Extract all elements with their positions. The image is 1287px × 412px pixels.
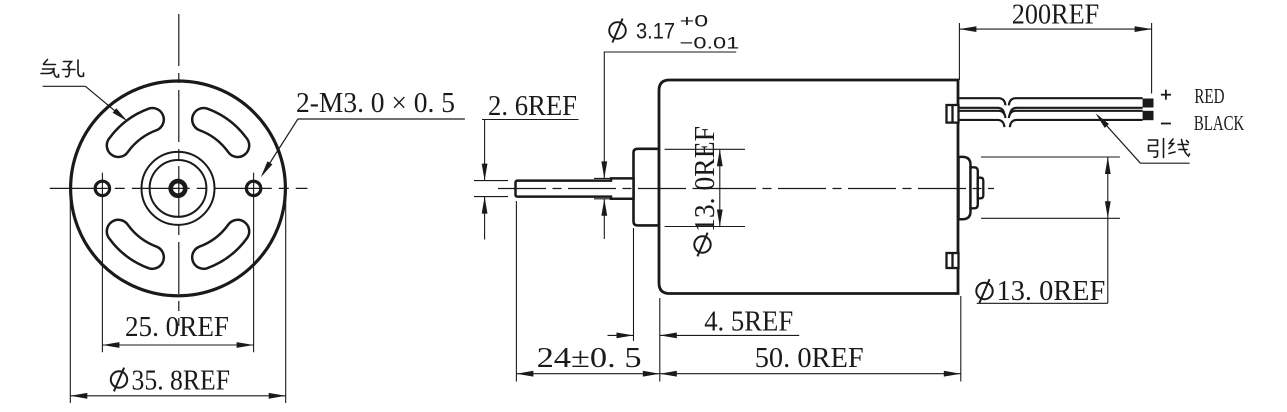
terminal tab upper <box>947 105 959 123</box>
side view center line (shaft axis) <box>498 188 994 190</box>
dimension Ø35.8REF text <box>111 371 127 387</box>
black wire stripped end <box>1143 111 1154 120</box>
bearing inner circle <box>150 160 207 217</box>
mounting hole right (M3) <box>246 181 260 195</box>
label - (black lead polarity) <box>1161 123 1171 125</box>
dimension Ø13.0REF (bushing) line <box>719 149 721 226</box>
front view vertical center line <box>178 14 180 326</box>
leader line for 2-M3.0 × 0.5 <box>298 118 465 120</box>
extension line body rear for 50.0REF <box>960 296 962 382</box>
dimension Ø13.0REF (rear boss) text <box>976 283 992 299</box>
dimension 25.0REF line <box>102 344 253 346</box>
dimension 50.0REF line <box>660 373 961 375</box>
vent slot SE <box>192 220 249 269</box>
label + (red lead polarity) <box>1161 94 1171 96</box>
terminal tab lower <box>947 253 959 268</box>
lead wire black (lower) outline, left segment <box>959 111 1006 118</box>
svg-text:−0.01: −0.01 <box>680 33 740 52</box>
svg-text:25. 0REF: 25. 0REF <box>125 312 229 343</box>
extension lines for 200REF <box>958 23 960 80</box>
leader line for 引线 <box>1140 162 1189 164</box>
extension line right for Ø35.8REF <box>285 197 287 403</box>
svg-text:24±0. 5: 24±0. 5 <box>537 342 642 374</box>
front bushing/flange <box>634 149 660 226</box>
extension line body front face <box>659 298 661 382</box>
lead wire red (upper) outline, left segment <box>959 98 1006 105</box>
rear bearing boss large <box>959 157 971 219</box>
leader line for 气孔 <box>43 85 86 87</box>
svg-text:50. 0REF: 50. 0REF <box>755 342 864 374</box>
svg-text:35. 8REF: 35. 8REF <box>132 366 231 397</box>
bearing boss circle <box>142 152 215 225</box>
shaft hub ring <box>171 181 186 196</box>
front view horizontal center line <box>50 187 308 189</box>
label 引线 (lead wires) glyphs <box>1149 139 1190 158</box>
svg-text:3.17: 3.17 <box>636 19 675 44</box>
extension line left for Ø35.8REF <box>69 197 71 403</box>
dimension Ø3.17 +0/-0.01 text <box>609 22 626 39</box>
svg-text:2-M3. 0 × 0. 5: 2-M3. 0 × 0. 5 <box>296 88 455 119</box>
svg-text:13. 0REF: 13. 0REF <box>689 126 721 232</box>
vent slot NE <box>192 108 249 157</box>
svg-text:200REF: 200REF <box>1012 0 1099 30</box>
mounting hole left (M3) <box>95 181 109 195</box>
dimension Ø3.17 arrows <box>603 52 605 178</box>
svg-text:4. 5REF: 4. 5REF <box>704 306 793 338</box>
svg-text:13. 0REF: 13. 0REF <box>997 275 1106 307</box>
dimension 200REF line <box>959 28 1151 30</box>
vent slot NW <box>107 108 164 157</box>
label 气孔 (air hole) glyphs <box>41 60 84 78</box>
svg-text:RED: RED <box>1194 84 1224 108</box>
extension line bushing face for 4.5REF <box>633 228 635 341</box>
svg-text:+0: +0 <box>680 11 709 30</box>
dimension 2.6REF arrows <box>484 120 486 181</box>
extension line shaft end for 24±0.5 <box>515 201 517 382</box>
lead wire black (lower) outline, right segment <box>1009 111 1143 118</box>
extension lines for Ø13.0REF (bushing) <box>665 148 745 150</box>
vent slot SW <box>107 220 164 269</box>
dimension Ø13.0REF (rear boss) line <box>1107 157 1109 303</box>
extension lines for Ø13.0REF (rear boss) <box>981 156 1120 158</box>
dimension 24±0.5 line <box>516 373 659 375</box>
dimension Ø35.8REF line <box>70 395 285 397</box>
leader line for Ø3.17 <box>604 51 737 53</box>
extension ticks for Ø3.17 <box>594 177 612 179</box>
dimension Ø13.0REF (bushing) vertical text <box>694 236 710 252</box>
motor shaft (2.6 / 3.17 sections) <box>516 178 634 198</box>
extension line through right hole <box>253 173 255 353</box>
lead wire red (upper) outline, right segment <box>1009 98 1143 105</box>
motor end cap outer circle (Ø35.8) <box>71 81 286 296</box>
extension ticks for 2.6REF <box>474 180 508 182</box>
red wire stripped end <box>1143 99 1154 108</box>
svg-text:BLACK: BLACK <box>1194 111 1244 135</box>
motor body <box>659 80 958 294</box>
dimension 4.5REF arrows <box>608 334 634 336</box>
svg-text:2. 6REF: 2. 6REF <box>488 90 577 122</box>
rear bearing boss middle <box>971 167 978 208</box>
rear shaft tip <box>978 178 984 199</box>
extension line through left hole <box>101 173 103 353</box>
